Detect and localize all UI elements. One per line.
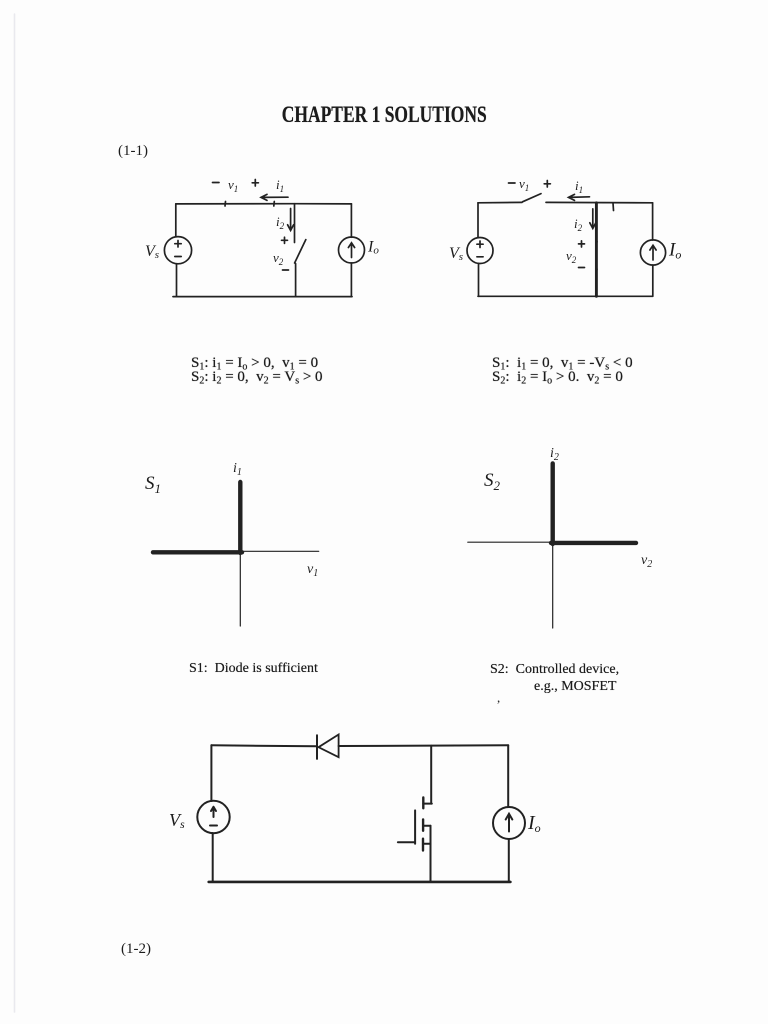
svg-text:v2: v2 — [566, 248, 577, 265]
svg-text:i2: i2 — [574, 216, 583, 233]
svg-text:Vs: Vs — [145, 243, 159, 261]
svg-text:v1: v1 — [228, 177, 238, 194]
svg-text:S1: S1 — [145, 473, 161, 496]
svg-text:S2: S2 — [484, 470, 501, 493]
svg-text:,: , — [497, 690, 500, 705]
svg-text:i1: i1 — [276, 177, 284, 194]
svg-text:Io: Io — [668, 240, 681, 262]
svg-text:i2: i2 — [550, 446, 559, 463]
svg-text:v2: v2 — [273, 250, 284, 267]
svg-text:v1: v1 — [307, 562, 318, 579]
svg-text:i1: i1 — [575, 178, 583, 195]
svg-text:Vs: Vs — [449, 245, 463, 263]
svg-text:v2: v2 — [641, 553, 652, 570]
svg-text:Vs: Vs — [169, 810, 185, 831]
svg-text:Io: Io — [367, 239, 379, 257]
svg-text:v1: v1 — [519, 176, 529, 193]
svg-text:i1: i1 — [233, 461, 242, 478]
svg-text:i2: i2 — [276, 214, 285, 231]
svg-text:Io: Io — [527, 812, 541, 835]
